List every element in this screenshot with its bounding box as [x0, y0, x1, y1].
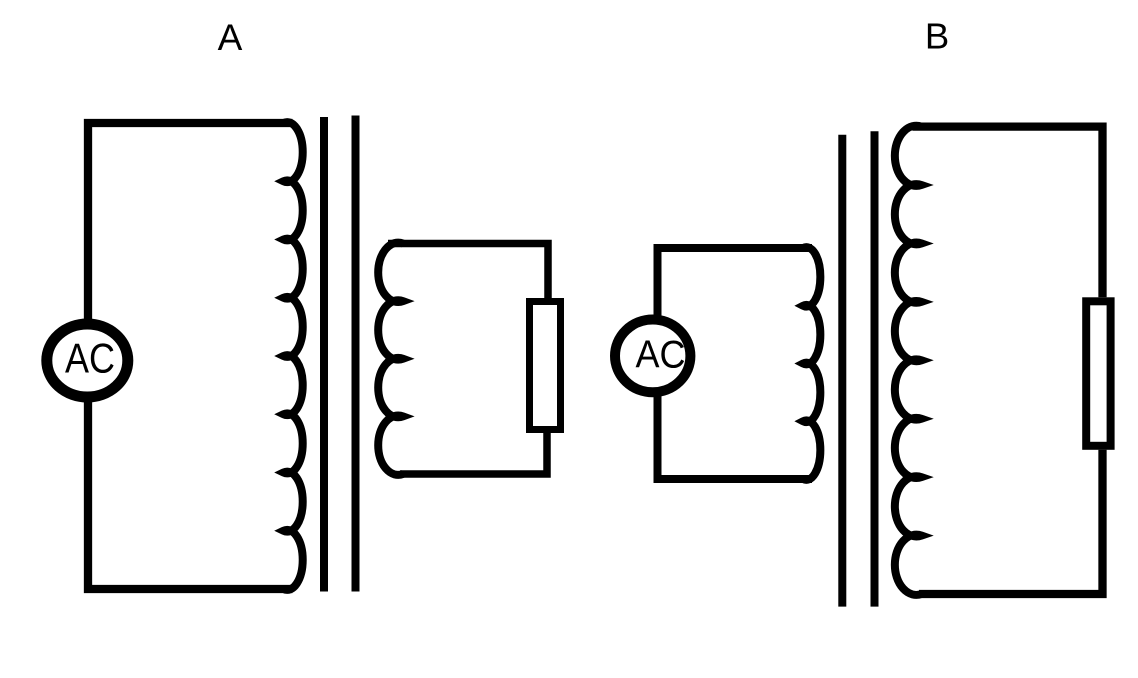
AC source of circuit A: [47, 324, 128, 397]
primary coil of transformer A: [284, 122, 303, 590]
wire: circuit B secondary bottom: [919, 450, 1103, 594]
svg-text:AC: AC: [65, 335, 115, 382]
resistor (load of circuit A): [530, 302, 561, 430]
transformer A core (right lamination line): [352, 116, 360, 592]
svg-text:B: B: [925, 16, 949, 57]
svg-text:A: A: [218, 17, 243, 58]
primary coil of transformer B: [803, 247, 820, 480]
wire: circuit A primary loop (top, left, bottom): [88, 123, 293, 589]
svg-text:AC: AC: [636, 333, 686, 376]
wire: circuit B secondary top: [913, 127, 1103, 298]
wire: circuit B primary loop (top, left, bottom): [658, 248, 813, 479]
wire: circuit A secondary top: [388, 244, 548, 302]
AC source of circuit B: [615, 320, 690, 393]
wire: circuit A secondary bottom: [400, 433, 547, 474]
secondary coil of transformer A: [378, 243, 403, 475]
secondary coil of transformer B: [895, 126, 922, 595]
transformer B core (right lamination line): [871, 131, 879, 606]
resistor (load of circuit B): [1086, 301, 1110, 446]
transformer A core (left lamination line): [320, 117, 328, 592]
transformer B core (left lamination line): [838, 135, 846, 607]
